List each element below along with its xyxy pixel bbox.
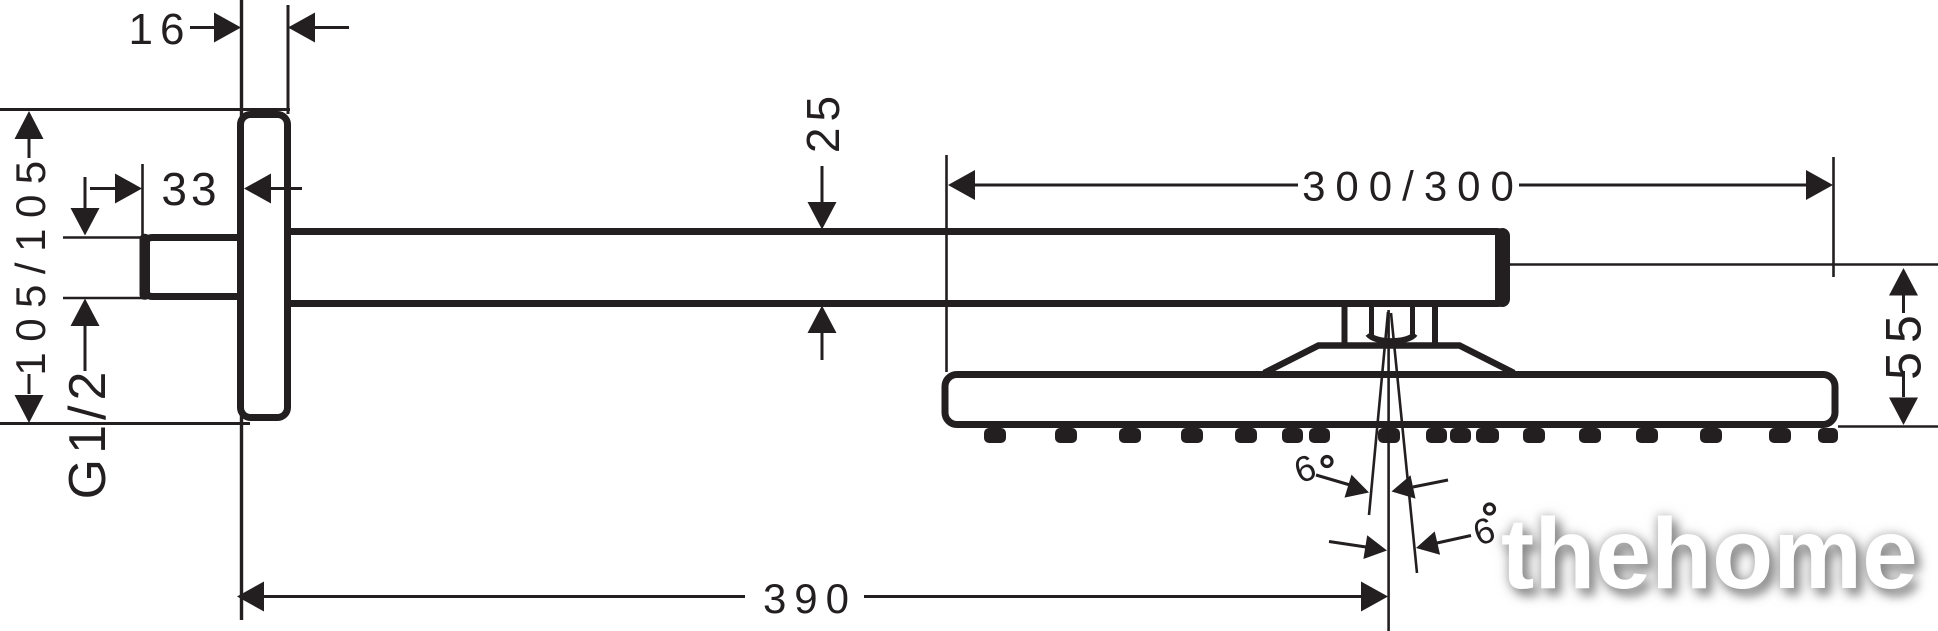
dim 6 upper right arrow bbox=[1392, 475, 1416, 498]
top extension line 105/105 bbox=[0, 108, 290, 111]
dim 105/105 bottom arrow bbox=[15, 395, 44, 423]
wall line bbox=[240, 0, 243, 620]
dim 6 lower right arrow bbox=[1416, 531, 1440, 554]
dim 55 top arrow bbox=[1889, 268, 1918, 296]
dim 6 upper degree ring bbox=[1322, 457, 1332, 467]
svg-text:390: 390 bbox=[763, 575, 857, 622]
bottom extension line 105/105 bbox=[0, 422, 250, 425]
inner cylinder bottom bbox=[1368, 334, 1415, 341]
svg-text:33: 33 bbox=[161, 163, 220, 215]
svg-text:6: 6 bbox=[1288, 446, 1321, 491]
supply stub end cap bbox=[140, 234, 151, 300]
ball joint housing bbox=[1345, 305, 1436, 346]
svg-text:G1/2: G1/2 bbox=[59, 367, 117, 500]
joint dome bbox=[1264, 346, 1514, 374]
55 reference line top bbox=[1506, 263, 1938, 266]
watermark thehome bbox=[1501, 497, 1918, 612]
dim 16 right arrow bbox=[288, 13, 315, 43]
supply stub bbox=[144, 238, 254, 297]
svg-text:16: 16 bbox=[129, 5, 192, 54]
svg-text:300/300: 300/300 bbox=[1302, 163, 1524, 210]
dim 390 right arrow bbox=[864, 595, 1362, 598]
dim 55 bottom arrow bbox=[1902, 371, 1905, 397]
nozzles bbox=[984, 428, 1838, 443]
dim 300/300 right arrow bbox=[1519, 184, 1807, 187]
dim 6 lower left arrow bbox=[1329, 542, 1366, 548]
dim G1/2 bottom arrow bbox=[71, 299, 100, 327]
svg-text:6: 6 bbox=[1467, 508, 1500, 553]
dim 16 left arrow bbox=[190, 26, 218, 29]
spray angle line right bbox=[1391, 313, 1417, 573]
wall plate bbox=[241, 115, 288, 418]
dim G1/2 top arrow bbox=[84, 177, 87, 210]
dim 25 top arrow bbox=[821, 166, 824, 203]
spray centerline bbox=[1387, 310, 1390, 631]
inner cylinder bbox=[1372, 305, 1413, 336]
300/300 left extension line bbox=[945, 155, 948, 372]
55 reference line bottom bbox=[1838, 425, 1938, 428]
stub bottom extension line bbox=[63, 297, 143, 300]
dim 33 left arrow bbox=[90, 187, 118, 190]
dim 105/105 top arrow bbox=[15, 111, 44, 139]
stub top extension line bbox=[63, 236, 144, 239]
dim 105/105 line lower segment bbox=[28, 374, 31, 394]
dim 105/105 line upper segment bbox=[28, 138, 31, 158]
dim 33 extension line bbox=[141, 164, 144, 236]
spray angle line left bbox=[1369, 312, 1388, 515]
plate front extension line bbox=[287, 5, 290, 114]
300/300 right extension line bbox=[1832, 157, 1835, 277]
dim 300/300 left arrow bbox=[948, 170, 975, 200]
svg-text:105/105: 105/105 bbox=[7, 150, 54, 375]
svg-text:25: 25 bbox=[797, 90, 849, 153]
spray plate bbox=[945, 375, 1835, 425]
dim 25 bottom arrow bbox=[808, 306, 837, 334]
svg-text:55: 55 bbox=[1876, 306, 1932, 380]
shower arm bar bbox=[284, 232, 1507, 304]
dim 6 lower degree ring bbox=[1485, 504, 1495, 514]
shower arm bar end cap bbox=[1495, 228, 1510, 307]
dim 390 left arrow bbox=[237, 582, 264, 612]
dim 6 upper left arrow bbox=[1316, 475, 1350, 485]
dim 33 right arrow bbox=[244, 174, 271, 204]
